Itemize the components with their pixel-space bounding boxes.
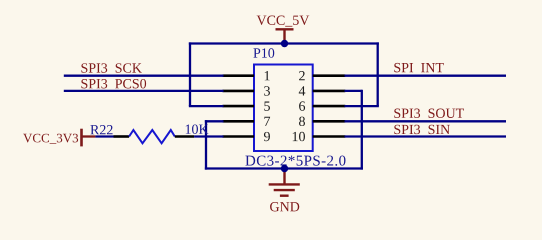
resistor R22 left lead (114, 135, 130, 138)
wire: SPI3_SCK to pin 1 (64, 75, 224, 77)
junction dot at GND rail (281, 165, 288, 172)
wire: right vertical VCC rail to pin 6 row (377, 42, 379, 106)
net label VCC_3V3 (23, 134, 78, 144)
pin number 9 (264, 132, 270, 141)
wire: pin 7 connection (205, 120, 224, 122)
junction dot at VCC_5V / top rail (281, 40, 288, 47)
pin number 10 (293, 132, 305, 141)
pin number 5 (264, 102, 270, 111)
connector P10 body outline (254, 65, 313, 152)
wire: pin 4 jog toward GND rail (345, 90, 362, 92)
power port VCC_3V3 stub (82, 135, 96, 137)
value label DC3-2*5PS-2.0 (245, 156, 345, 166)
pin 10 (313, 135, 346, 138)
pin number 1 (265, 71, 270, 80)
wire: resistor R22 to pin 9 (194, 135, 223, 137)
pin 9 (223, 135, 255, 138)
net label VCC_5V (257, 16, 310, 27)
pin number 8 (299, 117, 305, 126)
ground symbol bar 1 (269, 183, 300, 185)
net label GND (270, 202, 299, 211)
wire: SPI3_PCS0 to pin 3 (64, 90, 224, 92)
pin 5 (223, 105, 255, 108)
value 10K (186, 124, 209, 133)
ground symbol bar 2 (274, 189, 295, 191)
wire: pin 8 to SPI3_SOUT (345, 120, 507, 122)
power port VCC_5V bar (276, 28, 294, 30)
net label SPI3_SOUT (394, 109, 464, 118)
resistor R22 zigzag body (129, 130, 175, 143)
wire: top VCC_5V rail (189, 42, 379, 44)
pin number 4 (299, 86, 306, 95)
net label SPI3_SCK (81, 63, 141, 72)
net label SPI3_SIN (394, 125, 450, 134)
resistor R22 right lead (175, 135, 194, 138)
net label SPI3_PCS0 (81, 79, 146, 88)
pin number 6 (299, 101, 305, 110)
pin 7 (223, 120, 255, 123)
wire: pin 6 connection (345, 105, 379, 107)
wire: pin 10 to SPI3_SIN (345, 135, 507, 137)
wire: pin 2 to SPI_INT (345, 75, 507, 77)
wire: left vertical pin 7 row down to bottom rail (205, 120, 207, 169)
pin number 2 (299, 71, 305, 80)
wire: left vertical VCC rail to pin 5 row (189, 42, 191, 106)
net label SPI_INT (394, 63, 443, 72)
ground symbol stem (283, 169, 285, 185)
pin 8 (313, 120, 346, 123)
pin 6 (313, 105, 346, 108)
power port VCC_3V3 bar (80, 129, 83, 147)
designator P10 (253, 48, 274, 57)
wire: bottom GND rail (205, 167, 363, 169)
wire: pin 5 connection (189, 105, 224, 107)
pin 4 (313, 90, 346, 93)
pin 3 (223, 90, 255, 93)
power port VCC_5V stem (283, 29, 285, 43)
pin number 7 (264, 117, 270, 126)
designator R22 (90, 125, 112, 134)
pin 2 (313, 74, 346, 77)
pin 1 (223, 74, 255, 77)
pin number 3 (264, 86, 270, 95)
wire: vertical from pin 4 down to bottom rail (361, 90, 363, 170)
wire: VCC_3V3 to resistor R22 (95, 135, 113, 137)
ground symbol bar 3 (280, 194, 289, 196)
